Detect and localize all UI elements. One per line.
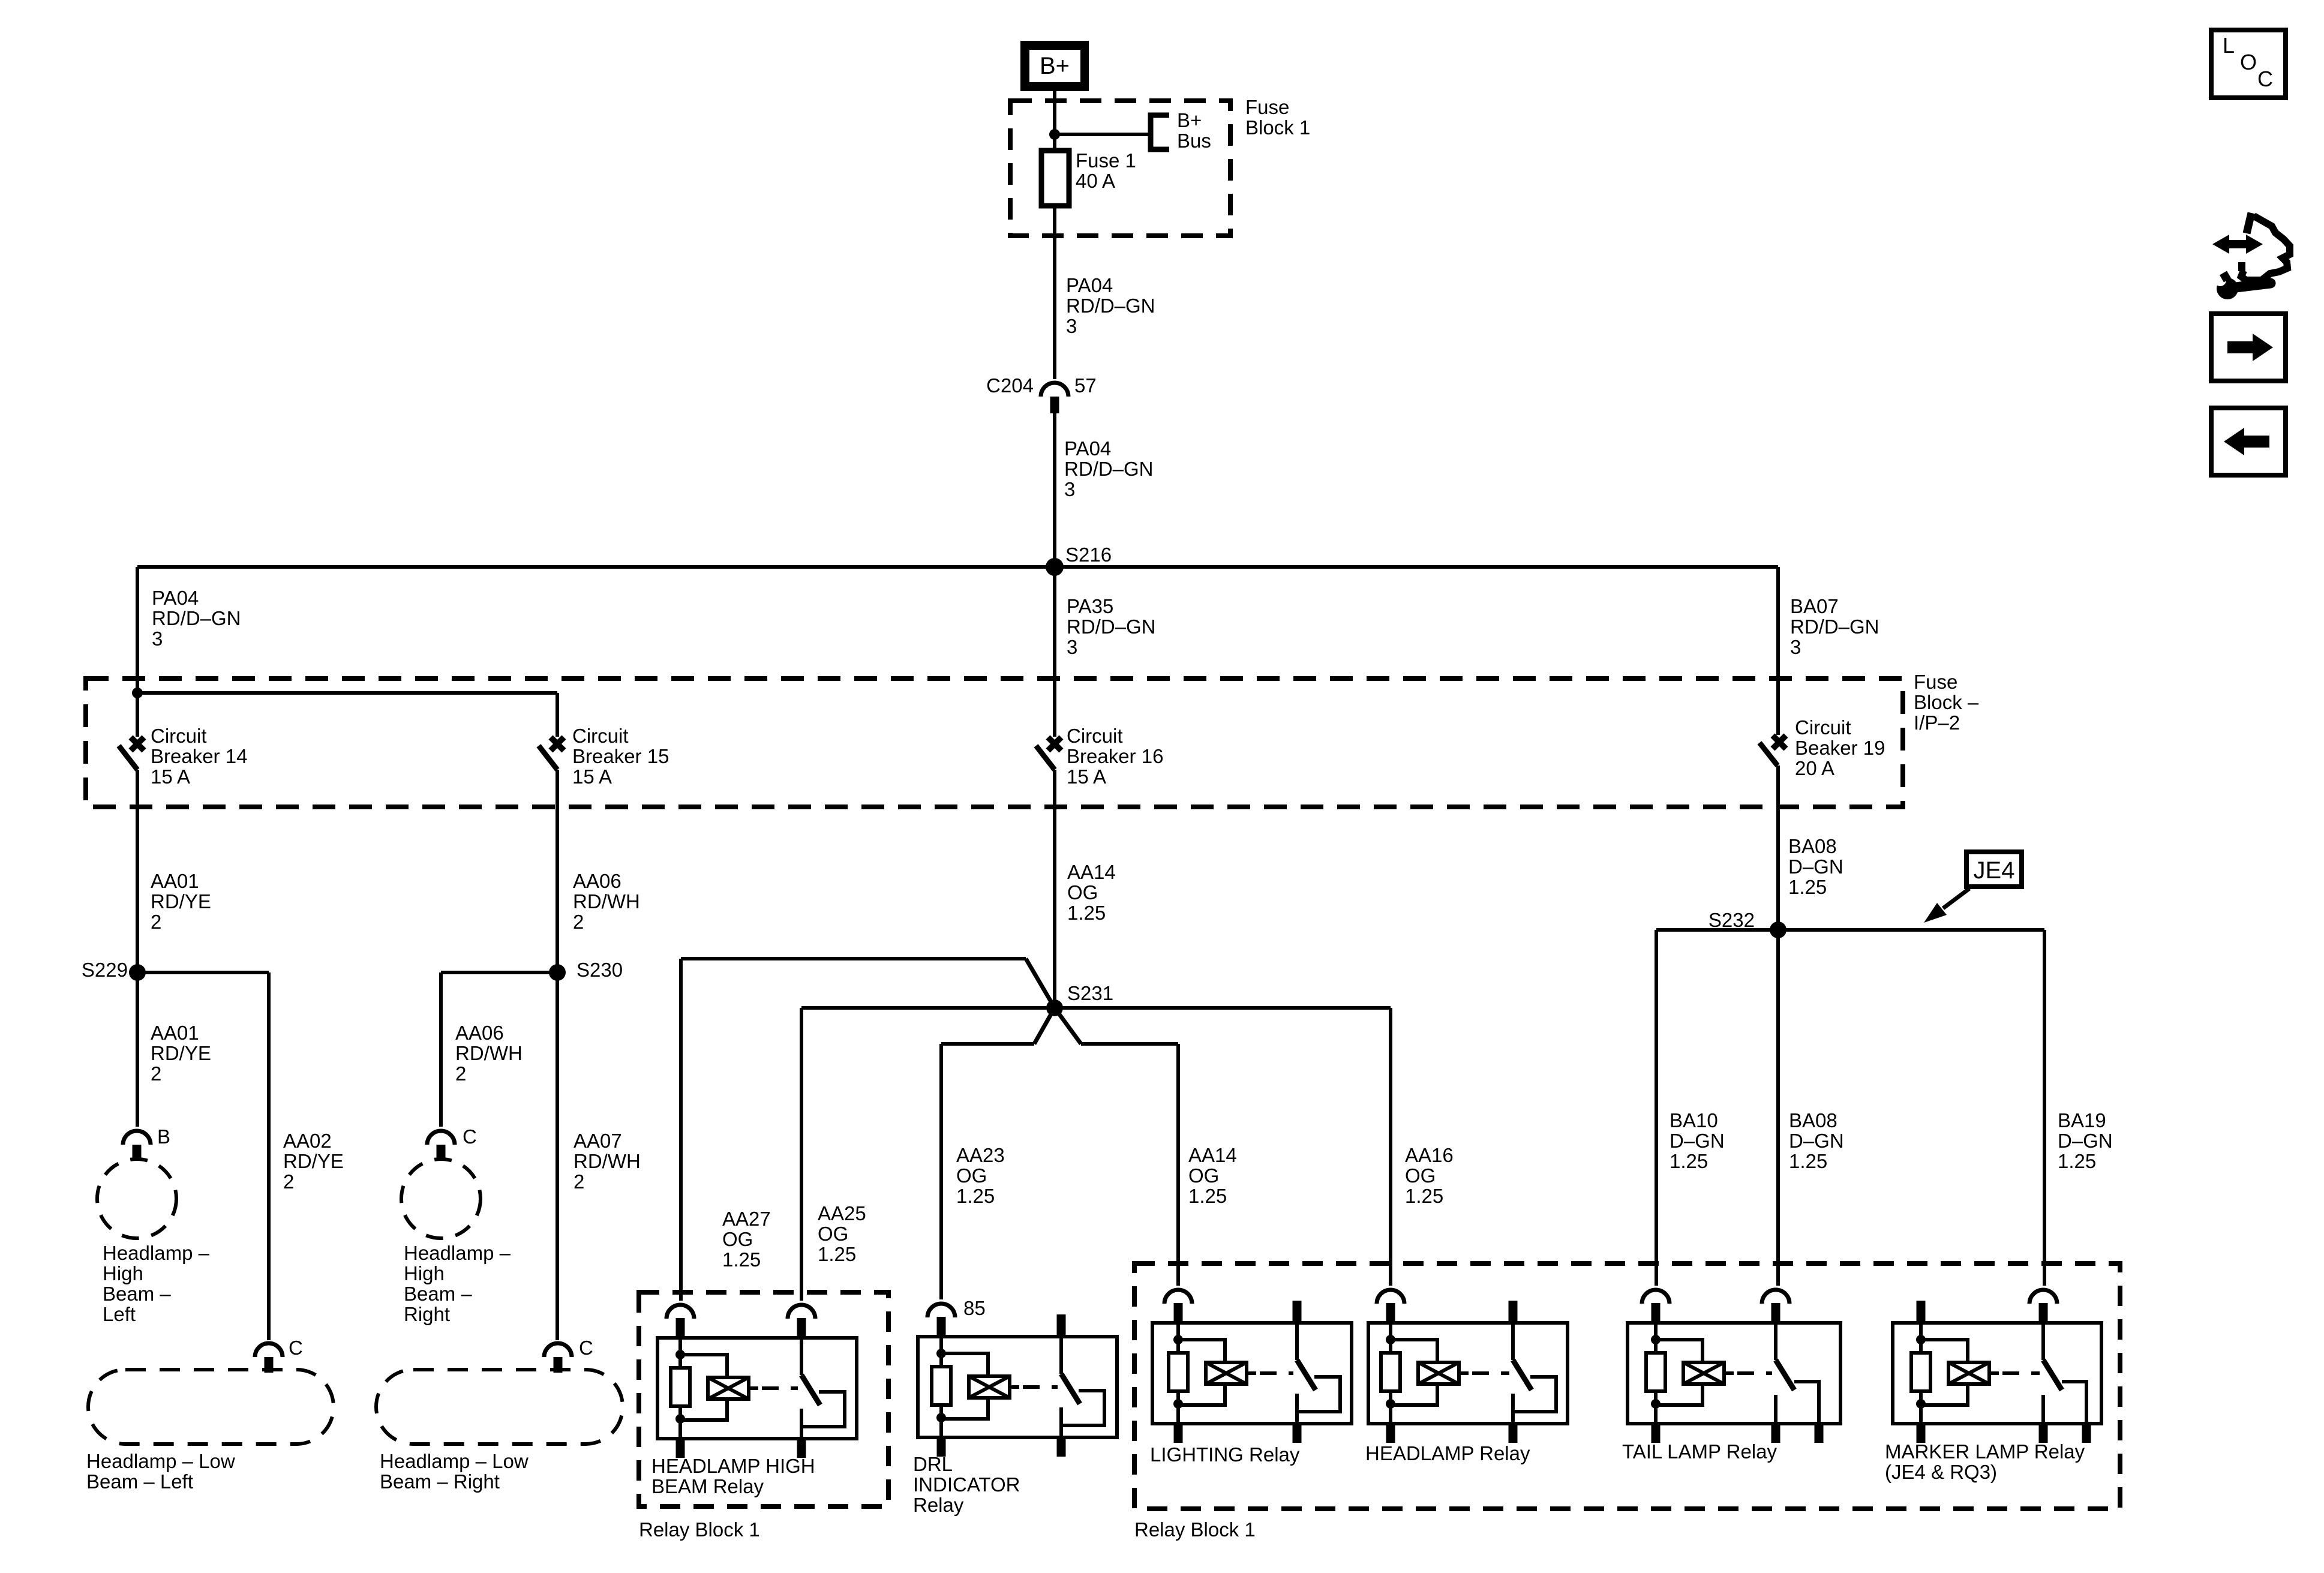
svg-text:1.25: 1.25 — [1067, 902, 1106, 924]
svg-text:RD/WH: RD/WH — [573, 890, 640, 912]
svg-text:JE4: JE4 — [1974, 857, 2015, 884]
svg-text:Relay Block 1: Relay Block 1 — [1134, 1518, 1256, 1541]
wire label AA06 RD/WH 2 — [573, 870, 640, 933]
svg-text:AA02: AA02 — [283, 1130, 332, 1152]
svg-text:Circuit: Circuit — [151, 725, 207, 747]
svg-text:AA01: AA01 — [151, 1022, 199, 1044]
svg-text:BA07: BA07 — [1790, 595, 1839, 617]
svg-text:RD/D–GN: RD/D–GN — [1066, 295, 1155, 317]
svg-text:PA04: PA04 — [1064, 437, 1111, 460]
svg-text:D–GN: D–GN — [1670, 1130, 1725, 1152]
svg-text:Fuse: Fuse — [1245, 96, 1289, 118]
wire S231 to AA23 — [941, 1008, 1055, 1299]
svg-text:Beam –: Beam – — [404, 1283, 472, 1305]
wire S216 right branch down — [1776, 567, 1780, 735]
svg-text:Headlamp – Low: Headlamp – Low — [86, 1450, 235, 1472]
svg-text:D–GN: D–GN — [1789, 1130, 1844, 1152]
svg-text:57: 57 — [1074, 374, 1097, 397]
headlamp high beam right label — [404, 1242, 511, 1325]
svg-text:D–GN: D–GN — [2058, 1130, 2113, 1152]
circuit breaker CB15 — [539, 737, 564, 770]
svg-text:1.25: 1.25 — [722, 1248, 761, 1271]
splice S216 — [137, 544, 1778, 576]
connector C204 pin 57 — [986, 374, 1097, 413]
wire label AA02 RD/YE 2 — [283, 1130, 344, 1193]
wire label PA04 RD/D-GN 3 — [152, 587, 241, 650]
svg-text:Beam –: Beam – — [103, 1283, 171, 1305]
junction node in fuse block IP2 — [132, 688, 143, 698]
svg-text:AA14: AA14 — [1067, 861, 1116, 883]
circuit breaker CB19 — [1759, 736, 1786, 766]
wire S229 branch right — [137, 972, 269, 1340]
svg-text:B: B — [157, 1125, 170, 1148]
svg-text:3: 3 — [1066, 315, 1077, 337]
wire S232 to BA19 — [2043, 930, 2046, 1286]
svg-text:TAIL LAMP Relay: TAIL LAMP Relay — [1622, 1440, 1777, 1463]
wire label AA23 OG 1.25 — [956, 1144, 1005, 1207]
headlamp high beam right dashed circle — [401, 1159, 481, 1238]
svg-text:1.25: 1.25 — [1670, 1150, 1708, 1172]
harness repair icon — [2212, 213, 2290, 299]
wire S231 to AA25 — [801, 1008, 1055, 1301]
wire label AA27 OG 1.25 — [722, 1208, 771, 1271]
svg-text:AA23: AA23 — [956, 1144, 1005, 1166]
svg-text:Breaker 16: Breaker 16 — [1067, 745, 1163, 767]
wire label AA14 OG 1.25 — [1067, 861, 1116, 924]
wire to B+ Bus — [1055, 133, 1151, 136]
svg-text:85: 85 — [963, 1297, 986, 1319]
wire S216 left branch down — [136, 567, 139, 737]
svg-text:MARKER LAMP Relay: MARKER LAMP Relay — [1885, 1440, 2085, 1463]
wire label AA16 OG 1.25 — [1405, 1144, 1454, 1207]
wire S216 center branch down — [1053, 567, 1056, 737]
B+ Bus terminal — [1151, 109, 1211, 152]
svg-text:Left: Left — [103, 1303, 136, 1325]
splice S230 — [549, 959, 623, 981]
svg-text:1.25: 1.25 — [1788, 876, 1827, 898]
wire C204 to S216 — [1053, 413, 1056, 567]
svg-text:Block –: Block – — [1914, 691, 1979, 713]
svg-text:AA06: AA06 — [455, 1022, 504, 1044]
relay LIGHTING label — [1150, 1443, 1300, 1466]
Fuse Block I/P-2 dashed box — [86, 679, 1903, 807]
svg-text:B+: B+ — [1177, 109, 1202, 131]
JE4 arrow — [1924, 888, 1969, 923]
svg-text:3: 3 — [152, 628, 163, 650]
svg-text:LIGHTING Relay: LIGHTING Relay — [1150, 1443, 1300, 1466]
wire label PA04 RD/D-GN 3 — [1064, 437, 1154, 500]
svg-text:OG: OG — [1067, 881, 1098, 903]
connector C headlamp low beam left — [255, 1337, 303, 1373]
svg-text:C: C — [463, 1125, 477, 1148]
svg-text:S230: S230 — [577, 959, 623, 981]
svg-text:D–GN: D–GN — [1788, 855, 1843, 878]
svg-text:OG: OG — [1405, 1164, 1436, 1187]
svg-text:1.25: 1.25 — [1405, 1185, 1443, 1207]
Fuse Block 1 label — [1245, 96, 1310, 139]
svg-text:40 A: 40 A — [1076, 170, 1115, 192]
svg-text:I/P–2: I/P–2 — [1914, 712, 1960, 734]
svg-text:1.25: 1.25 — [1188, 1185, 1227, 1207]
wire label BA10 D-GN 1.25 — [1670, 1109, 1725, 1172]
svg-text:1.25: 1.25 — [956, 1185, 995, 1207]
svg-text:Circuit: Circuit — [572, 725, 629, 747]
svg-text:Relay: Relay — [913, 1494, 964, 1516]
Fuse Block 1 dashed box — [1010, 101, 1230, 236]
svg-text:HEADLAMP Relay: HEADLAMP Relay — [1365, 1442, 1530, 1464]
splice S232 — [1709, 909, 1786, 938]
wire label AA01 RD/YE 2 — [151, 1022, 211, 1085]
svg-text:INDICATOR: INDICATOR — [913, 1473, 1020, 1496]
svg-text:AA27: AA27 — [722, 1208, 771, 1230]
B+ power symbol — [1020, 41, 1089, 91]
wire branch to Circuit Breaker 15 — [137, 693, 557, 737]
Relay Block 1 dashed box (headlamp high beam) — [639, 1292, 888, 1506]
svg-text:RD/D–GN: RD/D–GN — [1067, 616, 1156, 638]
wire S232 to BA08 — [1776, 930, 1780, 1286]
svg-text:Fuse 1: Fuse 1 — [1076, 149, 1136, 172]
svg-text:2: 2 — [283, 1170, 294, 1193]
relay HEADLAMP — [1368, 1290, 1568, 1443]
svg-text:S232: S232 — [1709, 909, 1755, 931]
connector C headlamp low beam right — [544, 1337, 593, 1373]
svg-text:Beaker 19: Beaker 19 — [1795, 737, 1885, 759]
wire S231 to AA14 — [1055, 1008, 1178, 1286]
wire label AA01 RD/YE 2 — [151, 870, 211, 933]
svg-text:C: C — [289, 1337, 303, 1359]
svg-text:Block 1: Block 1 — [1245, 116, 1310, 139]
svg-text:AA16: AA16 — [1405, 1144, 1454, 1166]
svg-text:15 A: 15 A — [151, 766, 190, 788]
wire S232 horizontal — [1656, 928, 2044, 932]
svg-text:OG: OG — [818, 1223, 848, 1245]
svg-text:RD/YE: RD/YE — [151, 1042, 211, 1064]
svg-text:2: 2 — [455, 1062, 466, 1085]
wire S231 to AA27 — [681, 959, 1055, 1301]
headlamp low beam left dashed outline — [88, 1370, 334, 1444]
circuit breaker CB15 label — [572, 725, 669, 788]
svg-text:Beam – Left: Beam – Left — [86, 1470, 193, 1493]
headlamp high beam left label — [103, 1242, 210, 1325]
svg-text:RD/WH: RD/WH — [574, 1150, 641, 1172]
svg-text:Headlamp – Low: Headlamp – Low — [380, 1450, 529, 1472]
svg-text:2: 2 — [151, 911, 161, 933]
svg-text:Circuit: Circuit — [1067, 725, 1123, 747]
svg-text:BA10: BA10 — [1670, 1109, 1718, 1131]
wire CB14 to S229 — [136, 770, 139, 972]
svg-text:15 A: 15 A — [1067, 766, 1106, 788]
svg-text:AA07: AA07 — [574, 1130, 622, 1152]
svg-text:2: 2 — [151, 1062, 161, 1085]
svg-text:AA06: AA06 — [573, 870, 621, 892]
relay HEADLAMP HIGH BEAM — [657, 1305, 857, 1458]
relay MARKER LAMP — [1893, 1290, 2101, 1443]
wire fuse to C204 — [1053, 206, 1056, 379]
svg-text:3: 3 — [1067, 636, 1077, 658]
splice S231 — [1046, 982, 1113, 1016]
svg-text:OG: OG — [722, 1228, 753, 1250]
svg-text:AA01: AA01 — [151, 870, 199, 892]
LOC icon box — [2211, 30, 2286, 98]
svg-text:PA04: PA04 — [1066, 274, 1113, 296]
svg-text:3: 3 — [1064, 478, 1075, 500]
svg-text:BEAM Relay: BEAM Relay — [651, 1475, 764, 1497]
back arrow icon — [2211, 408, 2286, 475]
svg-text:Headlamp –: Headlamp – — [404, 1242, 511, 1264]
relay MARKER LAMP label — [1885, 1440, 2085, 1483]
junction node in fuse block — [1049, 129, 1060, 140]
svg-text:S231: S231 — [1067, 982, 1113, 1004]
relay HEADLAMP label — [1365, 1442, 1530, 1464]
fuse Fuse 1 40 A — [1041, 149, 1136, 206]
svg-text:Circuit: Circuit — [1795, 716, 1851, 739]
svg-text:L: L — [2223, 33, 2235, 58]
svg-text:OG: OG — [1188, 1164, 1219, 1187]
wire label BA07 RD/D-GN 3 — [1790, 595, 1879, 658]
svg-text:BA19: BA19 — [2058, 1109, 2106, 1131]
svg-text:High: High — [103, 1262, 143, 1284]
svg-text:20 A: 20 A — [1795, 757, 1834, 779]
wire label AA06 RD/WH 2 — [455, 1022, 523, 1085]
svg-text:Bus: Bus — [1177, 130, 1211, 152]
wire label BA08 D-GN 1.25 — [1788, 835, 1843, 898]
wire S231 to AA16 — [1055, 1008, 1391, 1286]
relay HEADLAMP HIGH BEAM label — [651, 1455, 815, 1497]
svg-text:HEADLAMP HIGH: HEADLAMP HIGH — [651, 1455, 815, 1477]
svg-text:RD/YE: RD/YE — [283, 1150, 344, 1172]
svg-text:Breaker 14: Breaker 14 — [151, 745, 247, 767]
svg-text:Headlamp –: Headlamp – — [103, 1242, 210, 1264]
svg-text:15 A: 15 A — [572, 766, 612, 788]
svg-text:(JE4 & RQ3): (JE4 & RQ3) — [1885, 1461, 1997, 1483]
svg-text:C204: C204 — [986, 374, 1034, 397]
svg-text:Beam – Right: Beam – Right — [380, 1470, 500, 1493]
svg-text:OG: OG — [956, 1164, 987, 1187]
Fuse Block I/P-2 label — [1914, 671, 1979, 734]
relay TAIL LAMP — [1628, 1290, 1840, 1443]
wire S230 down to headlamp low beam right — [556, 972, 559, 1340]
wire CB15 to S230 — [556, 770, 559, 972]
forward arrow icon — [2211, 314, 2286, 381]
wire label AA14 OG 1.25 — [1188, 1144, 1237, 1207]
headlamp high beam left dashed circle — [97, 1159, 176, 1238]
svg-text:RD/D–GN: RD/D–GN — [152, 607, 241, 629]
svg-text:1.25: 1.25 — [2058, 1150, 2096, 1172]
splice S229 — [82, 959, 146, 981]
wire label BA08 D-GN 1.25 — [1789, 1109, 1844, 1172]
svg-text:RD/WH: RD/WH — [455, 1042, 523, 1064]
wire label AA25 OG 1.25 — [818, 1202, 866, 1265]
svg-text:S216: S216 — [1065, 544, 1112, 566]
wire label AA07 RD/WH 2 — [574, 1130, 641, 1193]
wire CB19 to S232 — [1776, 766, 1780, 930]
svg-text:Relay Block 1: Relay Block 1 — [639, 1518, 760, 1541]
connector pin 85 label — [963, 1297, 986, 1319]
svg-text:C: C — [579, 1337, 593, 1359]
Relay Block 1 label — [639, 1518, 760, 1541]
svg-text:1.25: 1.25 — [818, 1243, 856, 1265]
svg-text:3: 3 — [1790, 636, 1801, 658]
wire B+ to Fuse Block 1 — [1053, 91, 1056, 152]
svg-text:BA08: BA08 — [1788, 835, 1837, 857]
connector B headlamp high beam left — [123, 1125, 170, 1160]
svg-text:DRL: DRL — [913, 1453, 953, 1475]
svg-text:2: 2 — [573, 911, 584, 933]
svg-text:S229: S229 — [82, 959, 128, 981]
wire CB16 to S231 — [1053, 770, 1056, 1008]
svg-text:RD/D–GN: RD/D–GN — [1064, 458, 1154, 480]
circuit breaker CB16 label — [1067, 725, 1163, 788]
circuit breaker CB14 label — [151, 725, 247, 788]
wire S229 down to headlamp high beam left — [136, 972, 139, 1127]
svg-text:AA14: AA14 — [1188, 1144, 1237, 1166]
wire S230 branch left — [441, 972, 557, 1127]
circuit breaker CB16 — [1036, 737, 1061, 770]
svg-text:2: 2 — [574, 1170, 584, 1193]
headlamp low beam right label — [380, 1450, 529, 1493]
wire label PA35 RD/D-GN 3 — [1067, 595, 1156, 658]
wire S232 to BA10 — [1655, 930, 1658, 1286]
svg-text:PA04: PA04 — [152, 587, 199, 609]
svg-text:C: C — [2257, 67, 2273, 91]
svg-text:Fuse: Fuse — [1914, 671, 1957, 693]
wire label BA19 D-GN 1.25 — [2058, 1109, 2113, 1172]
circuit breaker CB19 label — [1795, 716, 1885, 779]
connector C headlamp high beam right — [427, 1125, 477, 1160]
svg-text:BA08: BA08 — [1789, 1109, 1837, 1131]
relay TAIL LAMP label — [1622, 1440, 1777, 1463]
svg-text:High: High — [404, 1262, 445, 1284]
Relay Block 1 label — [1134, 1518, 1256, 1541]
svg-text:PA35: PA35 — [1067, 595, 1113, 617]
option tag JE4 — [1966, 852, 2022, 887]
headlamp low beam left label — [86, 1450, 235, 1493]
Relay Block 1 dashed box (lighting relays) — [1134, 1263, 2120, 1509]
svg-text:AA25: AA25 — [818, 1202, 866, 1224]
svg-text:B+: B+ — [1040, 53, 1070, 79]
svg-text:1.25: 1.25 — [1789, 1150, 1827, 1172]
relay DRL INDICATOR — [918, 1304, 1117, 1457]
svg-text:RD/D–GN: RD/D–GN — [1790, 616, 1879, 638]
relay DRL INDICATOR label — [913, 1453, 1020, 1516]
wire label PA04 RD/D-GN 3 — [1066, 274, 1155, 337]
circuit breaker CB14 — [119, 737, 144, 770]
relay LIGHTING — [1152, 1290, 1352, 1443]
headlamp low beam right dashed outline — [376, 1370, 623, 1444]
svg-text:RD/YE: RD/YE — [151, 890, 211, 912]
svg-text:O: O — [2240, 50, 2257, 74]
svg-text:Right: Right — [404, 1303, 450, 1325]
svg-text:Breaker 15: Breaker 15 — [572, 745, 669, 767]
